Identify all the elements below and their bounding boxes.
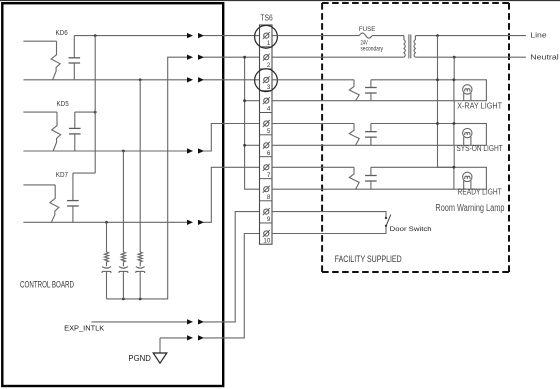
svg-text:EXP_INTLK: EXP_INTLK xyxy=(64,324,104,333)
svg-text:10: 10 xyxy=(263,237,270,244)
svg-text:X-RAY LIGHT: X-RAY LIGHT xyxy=(457,101,502,110)
svg-text:Line: Line xyxy=(530,33,547,40)
svg-text:KD5: KD5 xyxy=(57,99,69,108)
svg-text:1: 1 xyxy=(267,40,271,47)
svg-text:SYS-ON LIGHT: SYS-ON LIGHT xyxy=(456,144,502,153)
svg-text:KD7: KD7 xyxy=(56,170,68,179)
svg-text:FUSE: FUSE xyxy=(359,26,376,33)
svg-text:6: 6 xyxy=(267,150,271,157)
svg-text:Neutral: Neutral xyxy=(530,54,559,62)
svg-text:FACILITY SUPPLIED: FACILITY SUPPLIED xyxy=(335,254,402,264)
svg-text:5: 5 xyxy=(267,128,271,135)
svg-text:4: 4 xyxy=(267,106,271,113)
svg-text:PGND: PGND xyxy=(128,354,151,363)
svg-text:CONTROL BOARD: CONTROL BOARD xyxy=(20,280,74,290)
svg-text:3: 3 xyxy=(267,84,271,91)
svg-text:secondary: secondary xyxy=(361,45,384,52)
svg-text:8: 8 xyxy=(267,194,271,201)
svg-text:2: 2 xyxy=(267,62,271,69)
svg-text:Door Switch: Door Switch xyxy=(390,226,433,233)
svg-text:Room Warning Lamp: Room Warning Lamp xyxy=(435,203,504,214)
svg-text:READY LIGHT: READY LIGHT xyxy=(458,188,502,197)
svg-text:TS6: TS6 xyxy=(260,14,273,23)
svg-text:7: 7 xyxy=(267,172,271,179)
svg-text:KD6: KD6 xyxy=(56,28,68,37)
svg-text:9: 9 xyxy=(267,216,271,223)
